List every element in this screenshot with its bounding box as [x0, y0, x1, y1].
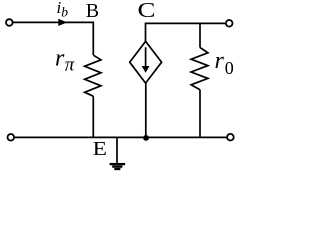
dependent current source G1 (diamond) [130, 41, 162, 83]
current arrow i_b on base wire [58, 19, 67, 26]
svg-text:0: 0 [225, 58, 234, 78]
wire: r_pi bottom stub to emitter rail [92, 96, 94, 137]
terminal port top-left (node B side) [6, 19, 13, 26]
wire: r_0 bottom stub to emitter rail [199, 90, 201, 138]
svg-text:r: r [55, 46, 65, 72]
svg-text:E: E [93, 137, 107, 159]
node E label [93, 137, 107, 159]
terminal port bottom-right (node E side) [227, 134, 234, 141]
label r_0 value [215, 48, 234, 78]
arrow inside current source (downward) [142, 47, 150, 73]
node B label [86, 0, 99, 22]
terminal port bottom-left (node E side) [8, 134, 15, 141]
wire: emitter bottom rail [14, 136, 226, 138]
junction dot at emitter rail / source connection [143, 135, 149, 141]
wire: current source bottom stub to emitter rail [145, 83, 147, 137]
label r_pi value [55, 46, 75, 76]
wire: collector top rail from C corner to right port [146, 23, 226, 41]
svg-text:r: r [215, 48, 225, 74]
resistor R r_0 (zigzag body) [191, 48, 208, 90]
resistor R r_pi (zigzag body) [85, 55, 101, 96]
label i_b [57, 0, 69, 20]
ground (stem and three bars) [110, 137, 126, 169]
svg-text:π: π [65, 55, 75, 76]
wire B: top-left horizontal wire with corner down to r_pi [13, 22, 93, 55]
svg-text:C: C [138, 0, 156, 22]
terminal port top-right (node C side) [226, 20, 233, 27]
node C label [138, 0, 156, 22]
svg-text:B: B [86, 0, 99, 22]
wire: r_0 top stub from collector rail [199, 23, 201, 47]
